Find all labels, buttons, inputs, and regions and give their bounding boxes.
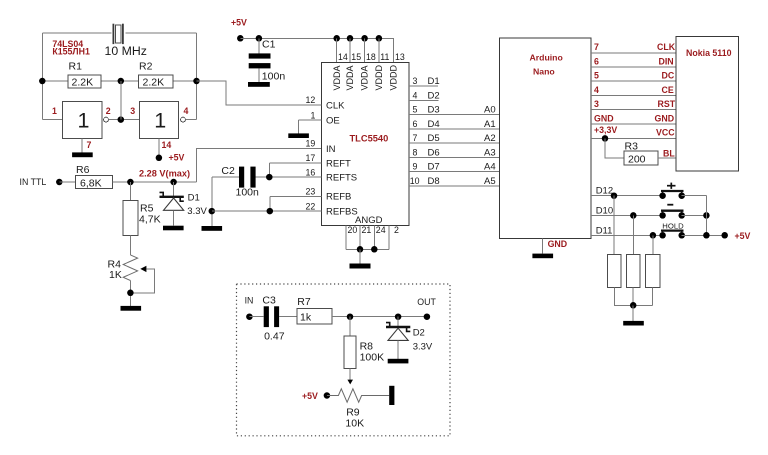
pin label REFTS — [326, 173, 357, 184]
value label 10 MHz — [105, 44, 147, 58]
wire: VDDA stub pin15 — [349, 38, 351, 62]
svg-text:7: 7 — [594, 42, 599, 52]
svg-text:R1: R1 — [69, 61, 83, 73]
svg-text:16: 16 — [306, 167, 316, 177]
wire: D10 line — [591, 214, 663, 216]
svg-text:10 MHz: 10 MHz — [105, 44, 147, 58]
wire: REFBS line — [212, 210, 322, 212]
pin number 20 — [348, 225, 358, 235]
wire: VDDA stub pin14 — [336, 38, 338, 62]
node: VCC/BL junction — [602, 135, 609, 142]
node: ANGD junction 24 — [371, 246, 378, 253]
pin number 1 — [52, 106, 57, 116]
wire: D1 data stub (pin3) — [409, 85, 438, 87]
node: +5V terminal — [237, 35, 244, 42]
wire: ANGD stub pin21 — [359, 226, 361, 250]
pin number 5 (Nano) — [594, 71, 599, 81]
net label A0 — [484, 105, 496, 116]
wire: D12 pulldown drop — [613, 196, 615, 255]
pin number 3 (Nano) — [594, 99, 599, 109]
pushbutton S2 minus — [659, 205, 685, 219]
svg-text:D4: D4 — [428, 119, 440, 130]
wire: REFB stub — [270, 195, 322, 197]
ground: pulldowns — [623, 321, 644, 326]
svg-text:2.2K: 2.2K — [72, 77, 94, 89]
svg-text:4: 4 — [184, 106, 189, 116]
net label D3 — [428, 105, 440, 116]
svg-text:17: 17 — [306, 153, 316, 163]
wire: R6 row to right — [112, 181, 196, 183]
svg-text:1: 1 — [78, 108, 90, 132]
wire: D2 data stub (pin4) — [409, 99, 438, 101]
net label D2 — [428, 90, 440, 101]
resistor pulldown 3 — [646, 254, 660, 287]
svg-text:20: 20 — [348, 225, 358, 235]
wire: D4 data line to A1 — [409, 128, 500, 130]
svg-text:D8: D8 — [428, 176, 440, 187]
pin number 10 — [410, 176, 420, 186]
net label D12 — [596, 186, 613, 197]
svg-text:Arduino: Arduino — [530, 53, 563, 63]
pin number 12 — [306, 95, 316, 105]
svg-text:IN TTL: IN TTL — [20, 177, 47, 187]
net label A5 — [484, 176, 496, 187]
svg-text:R3: R3 — [625, 141, 639, 153]
svg-text:Nano: Nano — [533, 67, 555, 77]
power label +5V (C1 rail) — [231, 18, 247, 28]
wire: Nano GND stub — [542, 239, 544, 254]
wire: OE down — [298, 120, 300, 133]
svg-text:2.28 V(max): 2.28 V(max) — [139, 168, 190, 178]
svg-text:A0: A0 — [484, 105, 496, 116]
resistor R7 1k — [297, 296, 332, 324]
pin label GND (Nano bottom) — [548, 239, 568, 249]
svg-text:R2: R2 — [139, 61, 153, 73]
crystal X1 10 MHz — [113, 24, 123, 44]
node: OUT terminal — [424, 313, 431, 320]
net label D5 — [428, 133, 440, 144]
wire: pulldown 1 to bus — [614, 287, 652, 305]
node: R4 wiper junction — [127, 290, 134, 297]
wire: R4 to ground — [129, 281, 131, 306]
pin label OE — [326, 115, 340, 126]
node: R5 junction — [127, 179, 134, 186]
pin number 14 (top) — [338, 52, 348, 62]
svg-text:7: 7 — [87, 140, 92, 150]
svg-text:VDDA: VDDA — [332, 65, 342, 90]
resistor R2 2.2K — [138, 61, 173, 89]
wire: Nano D6 to Nokia DIN — [591, 66, 676, 68]
svg-text:CLK: CLK — [326, 100, 345, 111]
wire: R5 to R4 — [129, 235, 131, 255]
pin label ANGD — [355, 215, 383, 226]
net label DIN — [659, 56, 674, 66]
pin number 1 (OE) — [311, 110, 316, 120]
svg-text:GND: GND — [655, 113, 675, 123]
svg-text:D12: D12 — [596, 186, 613, 197]
svg-text:REFB: REFB — [326, 192, 351, 203]
svg-text:3.3V: 3.3V — [187, 206, 207, 217]
wire: right vertical (crystal to gate2 output) — [196, 33, 198, 120]
svg-text:5: 5 — [594, 71, 599, 81]
svg-text:15: 15 — [351, 52, 361, 62]
node: D12 junction — [611, 192, 618, 199]
power label +5V (gate2) — [169, 153, 185, 163]
svg-text:4: 4 — [413, 90, 418, 100]
wire: OE stub — [299, 119, 322, 121]
pin number 21 — [362, 225, 372, 235]
wire: REFTS line — [256, 176, 322, 178]
node: VDDA pin18 junction — [361, 35, 368, 42]
wire: IN to C3 — [249, 316, 263, 318]
terminal label OUT — [417, 297, 436, 307]
module LCD Nokia 5110 body — [676, 37, 738, 172]
wire: D11 line — [591, 234, 663, 236]
net label CLK (Nokia) — [657, 42, 676, 52]
svg-text:D10: D10 — [596, 206, 613, 217]
ground: R4 — [121, 306, 142, 311]
net label D4 — [428, 119, 440, 130]
pin number 11 (top) — [380, 52, 389, 62]
potentiometer R4 1K — [108, 255, 155, 293]
svg-text:13: 13 — [395, 52, 405, 62]
svg-text:+5V: +5V — [169, 153, 185, 163]
svg-text:7: 7 — [413, 133, 418, 143]
svg-text:VCC: VCC — [656, 128, 675, 138]
svg-text:D1: D1 — [188, 193, 200, 204]
IC designator 74LS04 — [52, 39, 83, 49]
wire: gate1 pin7 stub — [81, 138, 83, 152]
node: VDDA pin15 junction — [347, 35, 354, 42]
resistor R1 2.2K — [68, 61, 101, 89]
wire: Nano D3 to Nokia RST — [591, 109, 676, 111]
node: REFB/REFBS junction — [267, 208, 274, 215]
wire: ANGD stub pin2 — [388, 226, 390, 250]
svg-text:D1: D1 — [428, 76, 440, 87]
wire: buttons right vertical — [705, 196, 707, 236]
wire: VDDA stub pin18 — [364, 38, 366, 62]
power label +5V (R9) — [302, 391, 318, 401]
pin number 15 (top) — [351, 52, 361, 62]
wire: Nano D4 to Nokia CE — [591, 94, 676, 96]
svg-text:R6: R6 — [76, 164, 90, 176]
zener diode D2 3.3V — [386, 317, 433, 353]
svg-text:9: 9 — [413, 162, 418, 172]
node: +5V terminal at pin14 — [156, 155, 163, 162]
svg-text:0.47: 0.47 — [264, 330, 285, 342]
capacitor C3 0.47 — [262, 295, 284, 343]
pin number 23 — [306, 187, 316, 197]
svg-text:RST: RST — [658, 99, 676, 109]
svg-text:3.3V: 3.3V — [413, 342, 433, 353]
terminal label IN — [245, 296, 254, 306]
svg-text:DIN: DIN — [659, 56, 674, 66]
svg-text:IN: IN — [245, 296, 254, 306]
wire: HOLD line to +5V — [682, 234, 725, 236]
wire: Nano D5 to Nokia DC — [591, 80, 676, 82]
wire: D12 line — [591, 195, 663, 197]
net label CE — [662, 85, 674, 95]
net label GND (Nokia) — [655, 113, 675, 123]
pin number 14 — [162, 140, 172, 150]
pin number 7 — [87, 140, 92, 150]
svg-text:OE: OE — [326, 115, 340, 126]
capacitor C1 100n — [249, 38, 286, 82]
pin number 9 — [413, 162, 418, 172]
arrow: wiper onto R9 — [347, 380, 353, 385]
node: VDDD pin11 junction — [376, 35, 383, 42]
node: left junction R1 row — [39, 78, 46, 85]
pin label CLK — [326, 100, 345, 111]
svg-text:12: 12 — [306, 95, 316, 105]
svg-text:HOLD: HOLD — [662, 222, 684, 231]
svg-text:14: 14 — [162, 140, 172, 150]
net label D7 — [428, 162, 440, 173]
svg-text:VDDD: VDDD — [374, 64, 384, 90]
resistor R3 200 — [624, 141, 658, 166]
pushbutton S3 HOLD — [659, 222, 685, 239]
svg-text:D2: D2 — [428, 90, 440, 101]
capacitor C2 100n — [212, 165, 259, 198]
net label D8 — [428, 176, 440, 187]
module name Nokia 5110 — [686, 48, 732, 58]
wire: C3 to R7 — [279, 316, 297, 318]
svg-text:2: 2 — [394, 225, 399, 235]
svg-text:D5: D5 — [428, 133, 440, 144]
node: D1 junction — [170, 179, 177, 186]
svg-text:22: 22 — [306, 201, 316, 211]
svg-text:+5V: +5V — [302, 391, 318, 401]
svg-text:19: 19 — [306, 139, 316, 149]
wire: Nano D7 to Nokia CLK — [591, 52, 676, 54]
wire: R1 row left — [42, 80, 68, 82]
wire: S1 to right vertical — [682, 195, 707, 197]
node: R8 junction — [347, 313, 354, 320]
voltage label 2.28 V(max) — [139, 168, 190, 178]
wire: REFT stub — [269, 162, 321, 164]
pin number 13 (top) — [395, 52, 405, 62]
wire: R7 to OUT — [332, 316, 427, 318]
wire: D11 pulldown drop — [652, 235, 654, 254]
node: +5V terminal (buttons) — [721, 232, 728, 239]
wire: GND to Nokia GND — [591, 123, 676, 125]
svg-text:VDDA: VDDA — [360, 65, 370, 90]
svg-text:10: 10 — [410, 176, 420, 186]
node: D11 junction — [650, 232, 657, 239]
svg-text:6,8K: 6,8K — [80, 177, 102, 189]
node: +5V terminal (R9) — [324, 392, 331, 399]
resistor pulldown 1 — [608, 254, 622, 287]
pin number 19 — [306, 139, 316, 149]
input label IN TTL — [20, 177, 47, 187]
svg-text:21: 21 — [362, 225, 372, 235]
pin number 7 (D5) — [413, 133, 418, 143]
wire: R3 to Nokia BL — [658, 157, 676, 159]
module name Nano — [533, 67, 555, 77]
svg-text:CLK: CLK — [657, 42, 676, 52]
pin number 8 — [413, 147, 418, 157]
inverter gate U1b — [140, 102, 186, 139]
ground: Nano — [532, 254, 553, 259]
svg-text:1: 1 — [154, 108, 166, 132]
pin number 6 (Nano) — [594, 56, 599, 66]
svg-text:14: 14 — [338, 52, 348, 62]
resistor R8 100K — [344, 336, 384, 369]
svg-text:D6: D6 — [428, 147, 440, 158]
svg-text:REFTS: REFTS — [326, 173, 357, 184]
wire: S2 to right vertical — [682, 214, 707, 216]
svg-text:C2: C2 — [221, 165, 235, 177]
pin number 17 — [306, 153, 316, 163]
svg-text:IN: IN — [326, 144, 336, 155]
node: D10 junction — [630, 212, 637, 219]
svg-text:К155ЛН1: К155ЛН1 — [52, 47, 90, 57]
node: REFT/REFTS junction — [266, 174, 273, 181]
net label A2 — [484, 133, 496, 144]
svg-text:OUT: OUT — [417, 297, 436, 307]
wire: +3,3V to Nokia VCC — [591, 137, 676, 139]
wire: junction up to R1/R2 — [120, 81, 122, 120]
node: right vertical at S2 — [703, 212, 710, 219]
op-amp ADC U2 TLC5540 body — [322, 62, 409, 225]
node: VDDA pin14 junction — [333, 35, 340, 42]
svg-text:GND: GND — [594, 113, 614, 123]
wire: bus to ground — [632, 305, 634, 321]
net label D1 — [428, 76, 440, 87]
svg-text:TLC5540: TLC5540 — [350, 134, 389, 144]
svg-text:GND: GND — [548, 239, 568, 249]
svg-text:6: 6 — [594, 56, 599, 66]
pin label REFBS — [326, 207, 358, 218]
pin label VDDD (13) — [389, 64, 399, 90]
pin label GND (Nano) — [594, 113, 614, 123]
wire: D1 to ground — [173, 210, 175, 225]
node: C2/REFBS junction — [209, 208, 216, 215]
ground: D2 — [388, 359, 409, 364]
wire: oscillator top rail right segment — [126, 32, 197, 34]
wire: D8 data line to A5 — [409, 185, 500, 187]
dashed enclosure (input attenuator) — [237, 284, 451, 436]
pin number 4 — [184, 106, 189, 116]
wire: +5V rail to ADC — [240, 38, 393, 62]
wire: left vertical — [41, 33, 43, 120]
svg-text:A1: A1 — [484, 119, 496, 130]
svg-text:11: 11 — [380, 52, 389, 62]
ground: ANGD — [350, 264, 371, 269]
svg-text:100n: 100n — [236, 187, 260, 199]
pin number 2 (bottom) — [394, 225, 399, 235]
net label D11 — [596, 225, 613, 236]
pin label REFB — [326, 192, 351, 203]
wire: gate1 input — [42, 119, 62, 121]
IC designator K155LN1 — [52, 47, 90, 57]
svg-text:1K: 1K — [109, 269, 122, 281]
ground: gate1 pin7 — [72, 152, 93, 157]
svg-text:VDDA: VDDA — [345, 65, 355, 90]
wire: R2 to right vertical — [173, 80, 196, 82]
wire: D7 data line to A4 — [409, 171, 500, 173]
svg-text:4,7K: 4,7K — [139, 214, 161, 226]
net label DC — [662, 71, 675, 81]
svg-text:3: 3 — [594, 99, 599, 109]
svg-text:10K: 10K — [345, 417, 364, 429]
pin label VDDD (11) — [374, 64, 384, 90]
node: IN terminal — [246, 313, 253, 320]
node: right junction R1 row — [193, 78, 200, 85]
pin number 16 — [306, 167, 316, 177]
pin number 24 — [376, 225, 386, 235]
svg-text:2.2K: 2.2K — [143, 77, 165, 89]
wire: pulldown 3 to bus — [652, 287, 654, 305]
ground: C2 — [202, 226, 223, 231]
svg-text:2: 2 — [106, 106, 111, 116]
wire: gate2 output — [185, 119, 196, 121]
svg-text:3: 3 — [413, 76, 418, 86]
power label +5V (buttons) — [735, 231, 751, 241]
ground: C1 — [248, 82, 270, 87]
wire: VDDD stub pin11 — [378, 38, 380, 62]
wire: C2 left down to ground — [211, 177, 213, 226]
wire: ANGD to ground — [359, 249, 361, 263]
wire: R8 to wiper arrow — [349, 369, 351, 380]
wire: up to IN pin of ADC — [197, 148, 322, 182]
zener diode D1 3.3V — [160, 192, 208, 216]
pin label VDDA (14) — [332, 65, 342, 90]
wire: gate1 output to gate2 input — [108, 119, 139, 121]
net label VCC — [656, 128, 675, 138]
resistor R5 4,7K — [123, 201, 161, 236]
svg-text:200: 200 — [628, 154, 646, 166]
ground: OE — [288, 133, 309, 138]
pin number 4 — [413, 90, 418, 100]
wire: D10 pulldown drop — [632, 215, 634, 254]
resistor pulldown 2 — [626, 254, 640, 287]
inverter gate U1a — [62, 102, 108, 139]
svg-text:100n: 100n — [262, 71, 286, 83]
wire: D5 data line to A2 — [409, 142, 500, 144]
wire: junction to D1 — [173, 182, 175, 197]
pin number 3 — [130, 106, 135, 116]
svg-text:100K: 100K — [360, 352, 385, 364]
svg-text:C3: C3 — [262, 295, 276, 307]
wire: REFT down to REFTS — [268, 163, 270, 177]
node: D2 junction — [395, 313, 402, 320]
svg-text:8: 8 — [413, 147, 418, 157]
pin number 5 — [413, 105, 418, 115]
pin label IN — [326, 144, 336, 155]
node: gate1 output junction — [118, 116, 125, 123]
wire: ANGD bus — [346, 248, 389, 250]
net label A3 — [484, 147, 496, 158]
svg-text:5: 5 — [413, 105, 418, 115]
net label A4 — [484, 162, 496, 173]
svg-text:Nokia 5110: Nokia 5110 — [686, 48, 732, 58]
net label A1 — [484, 119, 496, 130]
node: middle junction R1 row — [118, 78, 125, 85]
module name Arduino — [530, 53, 563, 63]
wire: terminal to R6 — [59, 181, 75, 183]
potentiometer R9 10K — [327, 386, 395, 430]
svg-text:+5V: +5V — [231, 18, 247, 28]
pin number 7 (Nano) — [594, 42, 599, 52]
ground: D1 — [163, 226, 184, 231]
pin label VDDA (15) — [345, 65, 355, 90]
svg-text:D7: D7 — [428, 162, 440, 173]
svg-text:DC: DC — [662, 71, 675, 81]
svg-text:+3,3V: +3,3V — [594, 125, 617, 135]
svg-text:D11: D11 — [596, 225, 613, 236]
wire: ANGD stub pin24 — [373, 226, 375, 250]
